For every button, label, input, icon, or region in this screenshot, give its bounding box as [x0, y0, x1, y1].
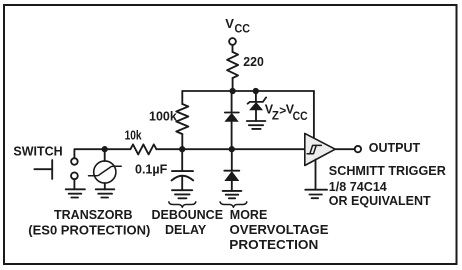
switch contact upper — [71, 158, 78, 165]
svg-text:CC: CC — [293, 111, 308, 123]
label VZ > VCC — [265, 103, 308, 123]
wire node to transzorb — [104, 149, 106, 161]
junction signal/D3 — [229, 146, 235, 152]
svg-text:OVERVOLTAGE: OVERVOLTAGE — [230, 223, 329, 237]
wire U1 to ground — [315, 160, 317, 190]
wire lower contact to ground — [73, 179, 75, 189]
ground zener — [247, 121, 266, 129]
wire switch to signal line — [74, 149, 130, 158]
svg-text:CC: CC — [235, 23, 251, 35]
ground D3 — [223, 191, 242, 198]
svg-text:220: 220 — [243, 55, 264, 69]
net label VCC — [225, 16, 250, 35]
label DEBOUNCE DELAY — [152, 208, 224, 237]
label SCHMITT TRIGGER 1/8 74C14 OR EQUIVALENT — [329, 164, 446, 208]
wire signal line mid — [156, 148, 304, 150]
terminal OUTPUT — [355, 146, 361, 152]
svg-text:DEBOUNCE: DEBOUNCE — [152, 208, 224, 222]
wire D3 to ground — [231, 181, 233, 191]
label MORE OVERVOLTAGE PROTECTION — [229, 208, 328, 252]
wire zener to ground — [255, 110, 257, 121]
wire bus to R2 — [181, 91, 183, 104]
terminal VCC — [229, 38, 236, 45]
junction bus/zener — [253, 88, 259, 94]
ground U1 — [305, 190, 327, 199]
zener diode D4 — [248, 97, 267, 110]
resistor R2 100k — [176, 104, 188, 134]
svg-text:DELAY: DELAY — [165, 223, 207, 237]
wire C1 to ground — [181, 176, 183, 190]
svg-text:1/8 74C14: 1/8 74C14 — [329, 180, 387, 194]
svg-text:SWITCH: SWITCH — [13, 145, 62, 159]
wire bus to zener — [255, 91, 257, 102]
switch pointer mark — [34, 160, 52, 179]
svg-text:OR EQUIVALENT: OR EQUIVALENT — [329, 194, 431, 208]
svg-text:100k: 100k — [149, 110, 177, 124]
wire R1 to VCC bus — [232, 78, 234, 91]
svg-text:V: V — [225, 16, 234, 31]
capacitor C1 — [172, 171, 194, 180]
svg-text:OUTPUT: OUTPUT — [369, 141, 421, 155]
ground C1 — [172, 190, 192, 198]
label TRANSZORB (ES0 PROTECTION) — [28, 208, 150, 237]
resistor R3 10k — [130, 144, 156, 154]
wire U1 output — [335, 148, 355, 150]
wire bus to U1 power pin — [313, 91, 315, 139]
wire R2 to signal node — [181, 134, 183, 149]
svg-text:0.1µF: 0.1µF — [135, 162, 168, 176]
wire node to D3 — [231, 149, 233, 171]
junction signal/R2/C1 — [179, 146, 185, 152]
junction signal/transzorb — [102, 146, 108, 152]
diode D2 clamp to VCC — [224, 113, 238, 122]
wire VCC bus — [182, 90, 314, 92]
svg-text:(ES0 PROTECTION): (ES0 PROTECTION) — [28, 223, 150, 237]
wire node to C1 — [181, 149, 183, 171]
switch contact lower — [71, 172, 78, 179]
brace debounce delay — [169, 202, 196, 207]
svg-text:Z: Z — [272, 110, 279, 122]
wire VCC terminal to R1 — [232, 45, 234, 52]
wire D2 to signal node — [231, 122, 233, 149]
ground transzorb — [96, 189, 115, 197]
schmitt trigger U1 — [305, 133, 335, 165]
diode D3 more overvoltage protection — [224, 171, 239, 181]
junction bus/R1 — [229, 88, 235, 94]
svg-text:SCHMITT TRIGGER: SCHMITT TRIGGER — [329, 164, 446, 178]
svg-text:MORE: MORE — [230, 208, 267, 222]
transzorb D1 — [89, 161, 122, 183]
wire transzorb to ground — [104, 183, 106, 189]
svg-text:PROTECTION: PROTECTION — [229, 238, 318, 252]
ground switch — [66, 189, 85, 197]
wire bus to D2 — [231, 91, 233, 113]
svg-text:TRANSZORB: TRANSZORB — [54, 208, 132, 222]
brace more overvoltage — [220, 202, 247, 207]
resistor R1 220 — [227, 52, 238, 78]
svg-text:10k: 10k — [125, 129, 142, 143]
